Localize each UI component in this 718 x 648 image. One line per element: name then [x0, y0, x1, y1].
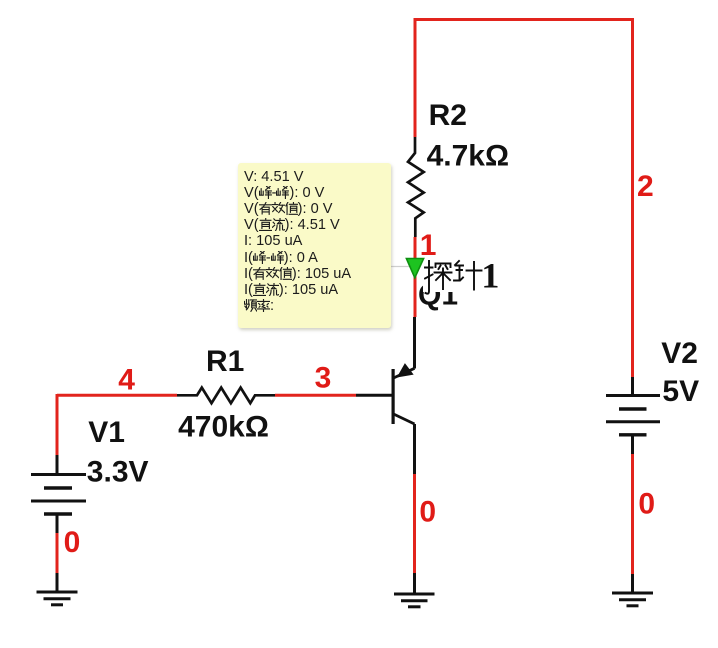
label R2	[429, 99, 467, 132]
ground left	[37, 592, 78, 605]
value label 5V	[662, 375, 699, 408]
probe label 探针1 background	[423, 257, 504, 292]
tooltip line I rms	[244, 266, 351, 282]
tooltip line V dc	[244, 217, 340, 233]
probe tooltip	[238, 163, 391, 328]
wire left horizontal node 4	[57, 394, 177, 397]
svg-text:0: 0	[64, 526, 81, 559]
probe arrow	[403, 255, 427, 281]
tooltip line I dc	[244, 282, 338, 298]
wire top horizontal node 1 to node 2	[414, 18, 634, 21]
node label 2	[637, 170, 654, 203]
transistor Q1 emitter diagonal top	[394, 368, 415, 378]
wire node 0 red below Q1	[413, 474, 416, 573]
wire collector lead black	[413, 317, 416, 369]
tooltip line V	[244, 169, 304, 185]
svg-text:1: 1	[481, 259, 499, 295]
tooltip leader line	[391, 266, 410, 268]
svg-text:5V: 5V	[662, 375, 699, 408]
svg-text:V1: V1	[88, 416, 125, 449]
wire node 0 red below V2	[631, 454, 634, 574]
wire ground lead middle	[413, 573, 416, 594]
wire node 1 red segment R2 to probe	[414, 237, 417, 317]
battery V2	[606, 377, 660, 454]
wire node 3 red	[275, 394, 356, 397]
wire node 0 red below V1	[56, 533, 59, 573]
node label 0 left	[64, 526, 81, 559]
svg-text:2: 2	[637, 170, 654, 203]
label V1	[88, 416, 125, 449]
wire right vertical node 2	[631, 18, 634, 377]
battery V1	[31, 455, 86, 533]
node label 1	[420, 229, 437, 262]
svg-text:V2: V2	[661, 337, 698, 370]
probe label 探针1 text	[424, 259, 502, 299]
svg-text:3: 3	[315, 362, 332, 395]
node label 0 right	[638, 488, 655, 521]
svg-text:R1: R1	[206, 345, 244, 378]
resistor R1	[177, 388, 275, 404]
node label 4	[118, 363, 135, 396]
transistor Q1 base bar	[392, 369, 395, 424]
svg-text:4.7kΩ: 4.7kΩ	[427, 139, 509, 172]
label V2	[661, 337, 698, 370]
svg-text:R2: R2	[429, 99, 467, 132]
wire emitter lead black below Q1	[413, 424, 416, 474]
transistor Q1 collector diagonal bottom	[394, 414, 415, 424]
node label 3	[315, 362, 332, 395]
value label 4.7kΩ	[427, 139, 509, 172]
node label 0 middle	[419, 496, 436, 529]
svg-text:4: 4	[118, 363, 135, 396]
tan	[425, 261, 433, 294]
tooltip line V rms	[244, 201, 332, 217]
ground right	[612, 593, 653, 606]
ground middle	[394, 594, 435, 607]
svg-text:3.3V: 3.3V	[87, 455, 149, 488]
svg-text:0: 0	[638, 488, 655, 521]
wire base lead black	[356, 394, 392, 397]
tooltip line I peak-peak	[244, 250, 318, 266]
zhen	[454, 261, 463, 281]
wire ground lead right	[631, 574, 634, 593]
svg-text:0: 0	[419, 496, 436, 529]
tooltip line V peak-peak	[244, 185, 324, 201]
tooltip line I	[244, 233, 302, 249]
transistor Q1 label (partially hidden)	[418, 279, 458, 312]
label R1	[206, 345, 244, 378]
value label 470kΩ	[178, 411, 269, 444]
resistor R2	[408, 137, 424, 237]
tooltip line frequency	[244, 298, 274, 314]
transistor Q1 arrow	[398, 365, 412, 377]
wire ground lead left	[56, 573, 59, 592]
wire V1 top vertical red	[56, 394, 59, 455]
value label 3.3V	[87, 455, 149, 488]
wire left vertical node 1 above R2	[414, 18, 417, 137]
svg-text:470kΩ: 470kΩ	[178, 411, 269, 444]
